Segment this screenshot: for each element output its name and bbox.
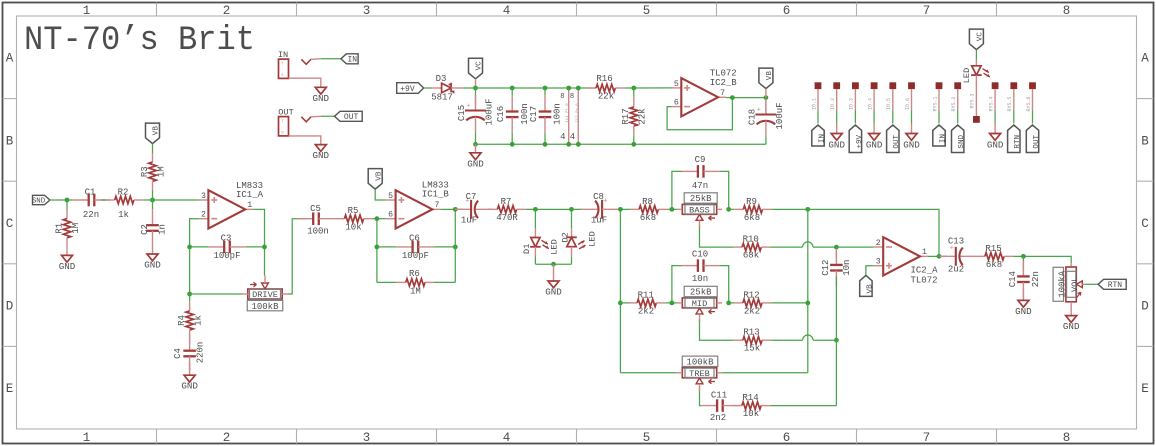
potentiometer VOL 100kA [1053,264,1085,316]
junction C6 left [375,245,380,250]
svg-text:5: 5 [643,431,651,445]
svg-text:2: 2 [223,4,231,18]
ground GND RYS.4 [987,124,1004,151]
svg-text:GND: GND [313,150,330,161]
svg-text:7: 7 [923,4,931,18]
svg-text:2: 2 [201,211,206,220]
wire C15 to gnd rail [475,132,477,144]
svg-text:5817: 5817 [431,93,453,103]
junction diode gnd [551,262,556,267]
svg-text:GND: GND [144,260,161,271]
wire R9 to feedback bus [772,208,808,210]
svg-text:OUT: OUT [344,113,359,122]
svg-text:R9: R9 [746,197,757,207]
svg-text:10k: 10k [743,409,759,419]
flag OUT [335,111,363,122]
svg-text:1uF: 1uF [461,216,477,226]
junction C17 top [543,86,548,91]
svg-text:2k2: 2k2 [638,306,654,316]
svg-text:IC2_A: IC2_A [911,266,939,276]
wire R13 to C12 node with hop [771,335,836,340]
wire IC1_A out down to wiper [253,209,264,275]
svg-text:R10: R10 [743,235,759,245]
capacitor C2 1n [140,200,167,254]
svg-text:DRIVE: DRIVE [252,290,278,300]
junction MID row input [618,301,623,306]
svg-text:100pF: 100pF [402,251,429,261]
svg-text:1M: 1M [410,287,421,297]
pad IO.2 [833,82,840,89]
wire R15 to VOL [1013,256,1071,263]
junction R1 top [65,198,70,203]
resistor R15 6k8 [976,244,1013,270]
svg-text:1k: 1k [118,210,129,220]
svg-text:LED: LED [550,239,560,254]
svg-text:IC1_A: IC1_A [236,190,264,200]
svg-text:1k: 1k [194,315,204,326]
junction C12 bottom node [834,338,839,343]
svg-text:RTN: RTN [1014,135,1022,149]
svg-text:IC2_P+-8: IC2_P+-8 [576,103,580,123]
wire IC1_A inv input feedback [190,219,199,294]
svg-text:22n: 22n [83,210,99,220]
flag SND RYS.2 [952,125,967,153]
capacitor C16 100n [496,88,530,144]
svg-text:C11: C11 [711,390,727,400]
svg-text:7: 7 [720,89,725,98]
wire D2 to C8 [572,208,582,210]
resistor R12 2k2 [729,290,771,316]
wire pad IO.3 [849,89,856,124]
svg-text:6: 6 [783,4,791,18]
svg-text:IO.3: IO.3 [849,98,855,110]
junction bus MID row [805,301,810,306]
svg-text:GND: GND [467,158,484,169]
junction MID right [726,301,731,306]
wire C8 to tone stack [618,208,630,210]
svg-text:2: 2 [876,239,881,248]
svg-text:C10: C10 [692,250,708,260]
wire C10 loop [672,266,729,303]
op-amp IC1_B LM833 [386,180,449,228]
ground GND power rail [467,144,484,169]
svg-text:D2: D2 [561,232,571,242]
svg-text:RYS.5: RYS.5 [1007,96,1013,111]
svg-text:5: 5 [643,4,651,18]
svg-text:GND: GND [866,139,883,150]
flag IN RYS.1 [933,125,948,146]
svg-text:D3: D3 [436,74,447,84]
svg-text:8: 8 [570,93,574,101]
resistor R7 470R [488,197,525,223]
wire IC1_B feedback left [376,219,378,283]
svg-text:R2: R2 [118,188,129,198]
svg-text:22n: 22n [1031,271,1041,287]
svg-text:C8: C8 [593,192,604,202]
capacitor C4 220n [173,335,206,375]
capacitor C15 100uF [457,88,494,132]
flag IN [341,54,358,65]
svg-text:1M: 1M [71,223,81,234]
resistor R6 1M [377,269,455,296]
svg-text:R1: R1 [54,223,64,234]
svg-text:10n: 10n [692,274,708,284]
supply VB IC2_A [860,266,875,297]
capacitor C1 22n [73,188,110,220]
flag IN IO.1 [812,125,827,146]
svg-text:25kB: 25kB [690,288,712,298]
capacitor C8 1uF [581,192,618,226]
svg-text:SND: SND [32,198,46,206]
junction BASS right [726,207,731,212]
capacitor C10 10n [682,250,719,284]
ground GND R1 [59,255,76,272]
svg-text:TL072: TL072 [911,275,938,285]
ground GND IO.6 [903,124,920,151]
svg-text:R3: R3 [140,166,150,177]
svg-text:GND: GND [1063,321,1080,332]
svg-text:2u2: 2u2 [948,265,964,275]
svg-text:+9V: +9V [400,85,415,94]
svg-text:5: 5 [674,80,679,89]
wire tone input vertical [619,209,621,372]
svg-text:B: B [6,134,14,148]
capacitor C9 47n [682,155,719,191]
capacitor C13 2u2 [940,237,977,275]
svg-text:3: 3 [201,192,206,201]
potentiometer MID 25kB [677,286,722,321]
capacitor C6 100pF [377,234,455,261]
led D2 LED [561,209,598,264]
svg-text:C7: C7 [466,192,477,202]
wire D3 to VC node [463,87,476,89]
capacitor C12 10n [821,247,852,340]
junction C17 bottom [543,142,548,147]
wire pad RYS.5 [1007,89,1014,124]
svg-text:R14: R14 [742,393,758,403]
svg-text:15k: 15k [744,344,760,354]
junction IC1_B inv node [375,216,380,221]
resistor R17 22k [621,88,648,144]
svg-text:C15: C15 [457,105,467,121]
svg-text:1M: 1M [156,166,166,177]
resistor R1 1M [54,200,81,255]
svg-text:GND: GND [987,139,1004,150]
wire pad RYS.2 [951,89,958,124]
supply VB IC1_B [368,169,383,190]
svg-text:TREB: TREB [689,369,710,379]
junction C3 left [187,245,192,250]
wire pad IO.6 [905,89,912,124]
wire jack-tip to OUT flag [321,115,337,117]
svg-text:R6: R6 [409,269,420,279]
svg-text:C9: C9 [695,155,706,165]
svg-text:IC1_B: IC1_B [422,190,450,200]
pad RYS.6 [1029,82,1036,89]
svg-text:SND: SND [958,134,966,148]
svg-text:C3: C3 [221,234,232,244]
ground GND diodes [545,264,562,297]
potentiometer TREB 100kB [677,356,722,391]
svg-text:+: + [466,103,470,111]
flag RTN [1098,279,1126,290]
capacitor C5 100n [297,204,334,236]
svg-text:1: 1 [247,201,252,210]
svg-text:100n: 100n [307,227,329,237]
wire IC1_B out [440,208,463,210]
svg-text:47n: 47n [692,181,708,191]
wire SND to C1 [50,199,73,201]
svg-text:A: A [1141,52,1149,66]
svg-text:+9V: +9V [856,134,864,148]
resistor R8 6k8 [630,197,667,223]
wire R16 to IC2_B [624,87,672,89]
led D1 LED [522,209,560,264]
svg-text:100n: 100n [553,103,563,125]
wire VB to pin5 [375,189,386,200]
svg-text:R16: R16 [596,74,612,84]
svg-text:OUT: OUT [893,134,901,148]
svg-text:GND: GND [828,139,845,150]
svg-text:22k: 22k [638,108,648,124]
resistor R5 10k [335,206,372,232]
wire TREB wiper to C11 [700,389,702,406]
wire R14 to C12 column [770,405,836,407]
svg-text:IC2_B: IC2_B [710,78,738,88]
jack J2 OUT [278,108,321,136]
svg-text:NT-70’s Brit: NT-70’s Brit [24,22,255,60]
capacitor C17 100n [529,88,563,144]
junction R17 top [631,86,636,91]
wire feedback bus vertical [807,209,809,372]
svg-text:2: 2 [223,431,231,445]
wire pad IO.2 [830,89,837,124]
supply VB R3 [146,123,161,144]
svg-text:R8: R8 [642,197,653,207]
resistor R13 15k [734,328,771,354]
svg-text:C5: C5 [310,204,321,214]
resistor R4 1k [177,294,204,339]
svg-text:RYS.4: RYS.4 [988,96,994,111]
led D4 LED [962,66,990,83]
junction C14 top [1021,254,1026,259]
svg-text:LED: LED [962,68,972,83]
resistor R2 1k [106,188,143,220]
svg-text:22k: 22k [598,92,614,102]
svg-text:68k: 68k [743,251,759,261]
svg-text:GND: GND [59,261,76,272]
svg-text:VB: VB [766,71,774,81]
junction DRIVE left R4 [187,292,192,297]
svg-text:7: 7 [923,431,931,445]
svg-text:IO.2: IO.2 [830,98,836,110]
supply VB main [759,68,774,98]
wire C1 to R2 [101,199,106,201]
svg-text:R5: R5 [348,206,359,216]
pad RYS.5 [1010,82,1017,89]
svg-text:RYS.3: RYS.3 [970,93,976,108]
wire bus to IC2_A out [808,209,939,256]
svg-text:IN: IN [939,134,947,143]
pad IO.3 [852,82,859,89]
svg-text:6: 6 [388,211,393,220]
junction C12 top node [834,245,839,250]
junction D1 top [533,207,538,212]
wire R10 to C12 node with hop [770,242,836,247]
flag SND input [32,195,50,205]
ground GND C14 [1015,300,1032,317]
svg-text:GND: GND [1015,306,1032,317]
svg-text:8: 8 [560,93,564,101]
svg-text:R7: R7 [501,197,512,207]
svg-text:4: 4 [503,4,511,18]
svg-text:C18: C18 [748,109,758,125]
wire gnd rail [476,143,766,145]
svg-text:3: 3 [876,258,881,267]
svg-text:25kB: 25kB [690,194,712,204]
wire R2 to opamp [143,199,199,201]
svg-text:470R: 470R [496,213,518,223]
svg-text:BASS: BASS [689,206,710,216]
junction R17 bottom [631,142,636,147]
junction C6 right [453,245,458,250]
svg-text:RYS.1: RYS.1 [932,96,938,111]
flag +9V IO.3 [849,125,864,153]
resistor R11 2k2 [628,290,665,316]
wire jack-tip to IN flag [321,58,341,60]
flag OUT IO.5 [887,125,902,153]
svg-text:100pF: 100pF [213,251,240,261]
svg-text:1n: 1n [157,224,167,235]
wire VOL wiper to RTN [1085,283,1098,285]
junction IC2_B out [730,95,735,100]
op-amp IC2_A TL072 [874,237,938,285]
wire pad IO.1 [811,89,818,124]
svg-text:100kB: 100kB [251,302,279,312]
svg-text:IO.6: IO.6 [905,98,911,110]
junction C3 right [262,245,267,250]
wire R8 to BASS [667,208,677,210]
wire DRIVE left [190,293,243,295]
junction C16 top [510,86,515,91]
wire LED to pad [970,75,977,116]
junction gnd rail C15 [473,142,478,147]
svg-text:8: 8 [1063,4,1071,18]
svg-text:4: 4 [560,132,565,142]
ground GND C4 [181,375,198,392]
svg-text:RYS.2: RYS.2 [951,96,957,111]
wire pad RYS.1 [932,89,939,124]
svg-text:R4: R4 [177,315,187,326]
svg-text:1: 1 [83,431,91,445]
svg-text:R12: R12 [743,290,759,300]
flag OUT RYS.6 [1026,125,1041,153]
svg-text:R17: R17 [621,108,631,124]
svg-text:GND: GND [545,287,562,298]
junction bus top [805,207,810,212]
power pins IC1_P 8/4 [560,86,571,147]
svg-text:100kB: 100kB [686,358,714,368]
svg-text:R11: R11 [638,290,654,300]
svg-text:C14: C14 [1008,271,1018,287]
ground GND IO.4 [866,124,883,151]
wire TREB right to bus [722,372,808,374]
svg-text:1uF: 1uF [591,216,607,226]
svg-text:IO.1: IO.1 [811,98,817,110]
wire C9 loop [672,171,729,209]
capacitor C14 22n [1008,256,1041,300]
svg-text:VB: VB [866,284,874,294]
svg-text:VB: VB [375,171,383,181]
wire jack sleeve to gnd [289,136,321,145]
wire R5 to IC1_B [373,218,387,220]
wire IC2_B feedback [667,98,732,130]
junction tone input [618,207,623,212]
ground GND C2 [144,254,161,271]
resistor R16 22k [587,74,624,102]
svg-text:6k8: 6k8 [640,213,656,223]
wire +9V to D3 [424,87,433,89]
pad RYS.1 [936,82,943,89]
svg-text:C16: C16 [496,106,506,122]
wire VC to LED [975,50,977,66]
svg-text:GND: GND [181,381,198,392]
svg-text:GND: GND [313,93,330,104]
junction IC2_A out [937,254,942,259]
svg-text:R13: R13 [743,328,759,338]
svg-text:6: 6 [783,431,791,445]
svg-text:RYS.6: RYS.6 [1026,96,1032,111]
svg-text:IN: IN [818,134,826,143]
svg-text:VC: VC [977,32,985,42]
svg-text:6k8: 6k8 [744,213,760,223]
pad RYS.2 [954,82,961,89]
wire C12 bottom to R14 row [835,340,837,405]
svg-text:IN: IN [347,56,357,65]
resistor R9 6k8 [729,197,772,223]
svg-text:D: D [1141,300,1149,314]
svg-text:6k8: 6k8 [986,260,1002,270]
wire DRIVE right to C5 [288,219,307,294]
ground GND jack OUT [313,145,330,162]
svg-text:MID: MID [692,299,707,309]
svg-text:100uF: 100uF [775,102,785,129]
svg-text:RTN: RTN [1108,281,1123,290]
wire C12 node to IC2_A [836,246,873,248]
potentiometer DRIVE 100kB [243,276,288,312]
resistor R10 68k [733,235,770,261]
svg-text:C: C [1141,217,1149,231]
junction R3 C2 node [150,198,155,203]
wire MID row left [620,302,630,304]
svg-text:C13: C13 [948,237,964,247]
svg-text:3: 3 [363,4,371,18]
svg-text:OUT: OUT [1033,134,1041,148]
potentiometer BASS 25kB [677,193,722,228]
svg-text:10k: 10k [345,223,361,233]
svg-text:D1: D1 [522,244,532,254]
svg-text:R15: R15 [985,244,1001,254]
svg-text:B: B [1141,134,1149,148]
svg-text:5: 5 [388,192,393,201]
wire R12 to bus [771,302,808,304]
wire pad RYS.6 [1026,89,1033,124]
supply VC [469,58,484,88]
wire IC2_B out to VB [726,97,766,99]
svg-text:1: 1 [83,4,91,18]
wire TREB row left [620,372,677,374]
svg-text:4: 4 [503,431,511,445]
